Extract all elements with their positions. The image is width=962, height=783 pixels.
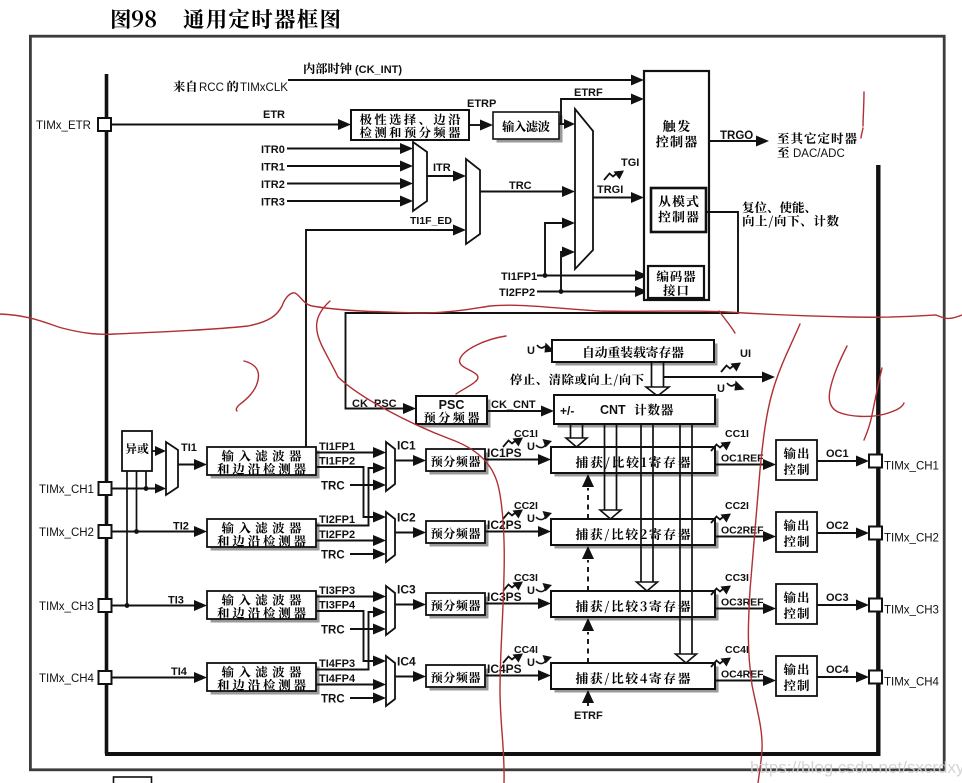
label CC1I + event squiggle (left) <box>503 441 515 448</box>
red annotation: long right vertical stroke <box>748 324 800 783</box>
wire TRGI into slave mode controller <box>593 197 631 199</box>
red annotation: long horizontal stroke across page <box>0 293 962 334</box>
mux: IC1 selector <box>386 442 395 491</box>
svg-text:TI3FP3: TI3FP3 <box>319 585 355 597</box>
svg-text:CC2I: CC2I <box>514 500 538 512</box>
box: polarity selection & edge detector & prescaler <box>351 110 469 140</box>
wire TRC to IC1 mux <box>350 484 373 486</box>
wire TI1FP1 branch up into TRGI mux <box>543 273 548 278</box>
svg-text:CC1I: CC1I <box>725 428 749 440</box>
wire TI4FP4 to IC4 mux <box>316 684 373 686</box>
wire TI1FP1 to IC1 mux <box>316 452 373 454</box>
svg-text:+/-: +/- <box>560 404 574 418</box>
pin TIMx_CH3 connector square <box>99 599 112 612</box>
wire OC3 <box>817 604 857 606</box>
box: CNT counter <box>558 399 719 428</box>
svg-text:OC1: OC1 <box>826 448 849 460</box>
svg-text:IC2: IC2 <box>397 511 416 525</box>
svg-text:https://blog.csdn.net/sxcrdxy: https://blog.csdn.net/sxcrdxy <box>750 758 962 777</box>
svg-text:U: U <box>527 441 535 453</box>
label UI + event squiggle <box>721 366 733 373</box>
label: to other timers / to DAC/ADC <box>777 132 856 160</box>
wire TI1F_ED (from CH1 filter up into TRC mux) <box>306 230 454 447</box>
box: capture/compare register 2 <box>555 523 719 549</box>
svg-text:TI2: TI2 <box>173 521 189 533</box>
red annotation: short S stroke on right bus <box>864 368 882 440</box>
svg-text:OC4: OC4 <box>826 664 850 676</box>
label TGI + event squiggle <box>604 174 616 181</box>
svg-text:TIMx_CH3: TIMx_CH3 <box>39 601 94 613</box>
wire OC2REF <box>715 536 764 538</box>
svg-text:TIMxCLK: TIMxCLK <box>240 82 288 94</box>
svg-text:TI1FP1: TI1FP1 <box>501 271 537 283</box>
svg-text:ITR3: ITR3 <box>261 197 285 209</box>
wire ETRP <box>469 124 481 126</box>
label CC4I + event squiggle (left) <box>503 657 515 664</box>
wire TI2 to CH2 input filter <box>112 531 196 533</box>
wire ITR to TRC mux <box>427 175 454 177</box>
svg-text:CK_PSC: CK_PSC <box>352 398 397 410</box>
red annotation: long diagonal-then-vertical stroke (left) <box>338 377 504 783</box>
svg-text:CNT: CNT <box>600 403 626 417</box>
dashed arrow: capture 2 to capture 1 <box>587 488 589 519</box>
label: reset enable up/down count <box>742 201 838 227</box>
svg-text:IC3PS: IC3PS <box>487 590 522 604</box>
wire TI4 to CH4 input filter <box>112 677 196 679</box>
pin TIMx_CH2 connector square (right) <box>869 527 882 540</box>
box: CH2 output control <box>776 512 817 552</box>
wire TIMx_CH1 to xor mux <box>112 488 156 490</box>
box: input filter (ETR) <box>497 116 563 143</box>
svg-text:OC1REF: OC1REF <box>721 453 764 465</box>
wire IC3PS to capture register <box>485 603 539 605</box>
box: CH1 prescaler <box>430 453 489 475</box>
svg-text:ITR2: ITR2 <box>261 179 285 191</box>
dashed arrow: capture 4 to capture 3 <box>587 632 589 663</box>
red annotation: curved stroke left (hook near encoder) <box>317 301 338 377</box>
box: CH2 prescaler <box>430 525 489 547</box>
svg-text:TIMx_CH1: TIMx_CH1 <box>884 461 939 473</box>
wire IC4 to prescaler <box>395 676 413 678</box>
svg-text:TGI: TGI <box>621 157 639 169</box>
box: CH3 prescaler <box>430 597 489 619</box>
pin TIMx_CH2 connector square <box>99 525 112 538</box>
wire TI1FP1 into encoder interface <box>537 275 636 277</box>
svg-text:ITR: ITR <box>433 162 451 174</box>
wire ETRF (up and right into trigger controller) <box>561 99 631 124</box>
hollow arrow: CNT to capture register 3 <box>640 424 642 583</box>
wire OC1 <box>817 460 857 462</box>
wire TRC to IC2 mux <box>350 553 373 555</box>
svg-text:IC3: IC3 <box>397 583 416 597</box>
mux: TRC selector <box>466 159 480 244</box>
wire CK_INT into trigger controller <box>288 79 631 81</box>
hollow arrow: CNT to capture register 4 <box>679 424 681 655</box>
svg-text:ETRP: ETRP <box>467 98 496 110</box>
red annotation: small vertical tick (top right) <box>861 92 864 138</box>
svg-text:TIMx_CH4: TIMx_CH4 <box>884 677 940 689</box>
box: encoder interface <box>648 266 704 298</box>
box: CH1 output control <box>776 440 817 480</box>
wire TRGO output <box>709 140 757 142</box>
svg-text:IC1: IC1 <box>397 439 416 453</box>
svg-text:TRC: TRC <box>321 694 345 706</box>
svg-text:CC2I: CC2I <box>725 500 749 512</box>
wire ITR1 <box>287 165 401 167</box>
box: CH3 output control <box>776 584 817 624</box>
svg-text:ETRF: ETRF <box>574 710 603 722</box>
wire CK_CNT <box>487 410 542 412</box>
box: PSC prescaler <box>420 400 491 428</box>
box: capture/compare register 1 <box>555 451 719 477</box>
box: capture/compare register 4 <box>555 667 719 693</box>
wire XOR output to TI1 mux <box>152 450 155 452</box>
svg-text:ETRF: ETRF <box>574 87 603 99</box>
box: capture/compare register 3 <box>555 595 719 621</box>
red annotation: squiggle near PSC <box>456 336 506 394</box>
label: TIMxCLK from RCC <box>173 81 288 94</box>
svg-text:OC3REF: OC3REF <box>721 597 764 609</box>
label CC1I + event squiggle (right) <box>711 445 723 452</box>
svg-text:DAC/ADC: DAC/ADC <box>793 148 845 160</box>
wire TRC to TRGI mux <box>480 191 563 193</box>
wire filter output to ETRF mux <box>559 123 564 125</box>
svg-text:RCC: RCC <box>199 82 224 94</box>
wire ETR <box>111 124 339 126</box>
mux: TI1 xor selector <box>166 442 178 495</box>
wire OC2 <box>817 532 857 534</box>
label CC3I + event squiggle (right) <box>711 589 723 596</box>
svg-text:TI3FP4: TI3FP4 <box>319 600 356 612</box>
pin TIMx_CH4 connector square <box>99 671 112 684</box>
wire ITR2 <box>287 183 401 185</box>
svg-text:IC1PS: IC1PS <box>487 446 522 460</box>
svg-text:TI4FP3: TI4FP3 <box>319 658 355 670</box>
red annotation: J-hook stroke crossing right bus <box>829 346 904 416</box>
legend stub box (bottom left, cut off) <box>114 777 152 783</box>
box: trigger controller U1 <box>644 71 709 300</box>
wire IC2PS to capture register <box>485 531 539 533</box>
svg-text:TRGO: TRGO <box>720 130 753 142</box>
left internal bus (thick vertical) <box>105 74 109 754</box>
wire U event line right <box>664 376 764 378</box>
svg-text:TI2FP2: TI2FP2 <box>319 529 355 541</box>
wire TI2FP2 into encoder interface <box>537 291 636 293</box>
svg-text:TIMx_ETR: TIMx_ETR <box>36 120 91 132</box>
wire TI3FP4 down to IC4 mux <box>316 611 373 661</box>
svg-text:TIMx_CH3: TIMx_CH3 <box>884 605 939 617</box>
title: figure 98 general purpose timer block diagram <box>112 9 340 29</box>
mux: TRGI selector (tall) <box>575 109 593 269</box>
mux: IC2 selector <box>386 512 395 562</box>
svg-text:TI4: TI4 <box>171 666 188 678</box>
wire ETRF into capture register 4 <box>587 702 589 706</box>
box: XOR <box>122 431 152 471</box>
svg-text:ETR: ETR <box>263 109 285 121</box>
box: CH4 prescaler <box>430 669 489 691</box>
svg-text:U: U <box>527 513 535 525</box>
pin TIMx_CH1 connector square <box>99 482 112 495</box>
svg-text:TRC: TRC <box>321 625 345 637</box>
red annotation: small hook below long line (center right) <box>719 311 735 333</box>
pin TIMx_CH4 connector square (right) <box>869 671 882 684</box>
wire OC4REF <box>715 680 764 682</box>
mux: IC4 selector <box>386 656 395 706</box>
svg-text:OC3: OC3 <box>826 592 849 604</box>
label CC2I + event squiggle (left) <box>503 513 515 520</box>
svg-text:U: U <box>717 383 725 395</box>
hollow arrow: CNT to capture register 1 <box>570 424 572 439</box>
wire IC3 to prescaler <box>395 604 413 606</box>
wire TI1FP2 down to IC2 mux <box>316 467 373 517</box>
mux: IC3 selector <box>386 586 395 635</box>
wire TI4FP3 up to IC3 mux <box>316 612 374 670</box>
wire IC1 to prescaler <box>395 460 413 462</box>
svg-text:IC4: IC4 <box>397 655 416 669</box>
pin TIMx_ETR connector square <box>98 118 111 131</box>
box: slave mode controller <box>651 188 706 232</box>
wire TRC to IC3 mux <box>350 628 373 630</box>
svg-text:CC1I: CC1I <box>514 428 538 440</box>
wire OC4 <box>817 676 857 678</box>
wire TI1 to CH1 input filter <box>178 464 195 466</box>
box: CH3 input filter & edge detector <box>211 595 320 623</box>
wire: slave mode control to PSC (reset/enable path) <box>346 212 739 409</box>
red annotation: small hook stroke (center) <box>236 361 258 411</box>
label CC2I + event squiggle (right) <box>711 517 723 524</box>
svg-text:TIMx_CH1: TIMx_CH1 <box>39 484 94 496</box>
wire OC3REF <box>715 608 764 610</box>
svg-text:TIMx_CH4: TIMx_CH4 <box>39 673 95 685</box>
wire TI2FP2 to IC2 mux <box>316 540 373 542</box>
dashed arrow: capture 3 to capture 2 <box>587 560 589 591</box>
svg-text:U: U <box>527 657 535 669</box>
wire ITR3 <box>287 200 401 202</box>
svg-text:TI1FP1: TI1FP1 <box>319 441 355 453</box>
box: CH4 output control <box>776 656 817 696</box>
svg-text:IC4PS: IC4PS <box>487 662 522 676</box>
svg-text:TIMx_CH2: TIMx_CH2 <box>884 533 939 545</box>
wire OC1REF <box>715 464 764 466</box>
wire IC4PS to capture register <box>485 675 539 677</box>
svg-text:(CK_INT): (CK_INT) <box>355 64 402 76</box>
box: CH4 input filter & edge detector <box>211 667 320 695</box>
svg-text:TRC: TRC <box>509 180 532 192</box>
svg-text:TI2FP1: TI2FP1 <box>319 514 355 526</box>
box: CH1 input filter & edge detector <box>211 451 320 479</box>
svg-text:CC4I: CC4I <box>514 644 538 656</box>
wire TI3FP3 to IC3 mux <box>316 596 373 598</box>
wire ITR0 <box>287 148 401 150</box>
wire XOR box feed lines down to CH1/CH2/CH3 <box>145 471 147 489</box>
bottom internal bus (thick horizontal) <box>105 752 880 756</box>
label: stopped cleared or up/down <box>510 373 522 385</box>
svg-text:TI1F_ED: TI1F_ED <box>410 215 452 227</box>
hollow arrow: auto-reload to CNT <box>651 362 653 388</box>
svg-text:TI1: TI1 <box>181 442 197 454</box>
mux: ITR selector <box>413 142 427 211</box>
hollow arrow: CNT to capture register 2 <box>604 424 606 511</box>
svg-text:OC2: OC2 <box>826 520 849 532</box>
label CC4I + event squiggle (right) <box>711 661 723 668</box>
svg-text:OC4REF: OC4REF <box>721 669 764 681</box>
svg-text:OC2REF: OC2REF <box>721 525 764 537</box>
wire TI2FP1 up to IC1 mux <box>316 468 374 526</box>
wire IC1PS to capture register <box>485 459 539 461</box>
svg-text:CC3I: CC3I <box>725 572 749 584</box>
svg-text:TRGI: TRGI <box>597 184 623 196</box>
wire TRC to IC4 mux <box>350 697 373 699</box>
svg-text:U: U <box>527 345 535 357</box>
svg-text:TRC: TRC <box>321 550 345 562</box>
svg-text:TI2FP2: TI2FP2 <box>499 287 535 299</box>
box: CH2 input filter & edge detector <box>211 523 320 551</box>
label CC3I + event squiggle (left) <box>503 585 515 592</box>
right internal bus (thick vertical) <box>876 165 880 756</box>
wire TI2FP2 branch up into TRGI mux <box>559 289 564 294</box>
svg-text:PSC: PSC <box>439 398 465 412</box>
svg-text:CK_CNT: CK_CNT <box>491 399 536 411</box>
svg-text:CC3I: CC3I <box>514 572 538 584</box>
wire TI3 to CH3 input filter <box>112 605 196 607</box>
box: auto-reload register <box>556 344 718 366</box>
wire IC2 to prescaler <box>395 532 413 534</box>
svg-text:TI3: TI3 <box>168 595 184 607</box>
pin TIMx_CH1 connector square (right) <box>869 455 882 468</box>
svg-text:TRC: TRC <box>321 481 345 493</box>
label: internal clock CK_INT <box>304 63 402 76</box>
svg-text:TI1FP2: TI1FP2 <box>319 456 355 468</box>
svg-text:UI: UI <box>740 348 751 360</box>
svg-text:TI4FP4: TI4FP4 <box>319 673 356 685</box>
svg-text:CC4I: CC4I <box>725 644 749 656</box>
svg-text:TIMx_CH2: TIMx_CH2 <box>39 527 94 539</box>
svg-text:ITR0: ITR0 <box>261 144 285 156</box>
svg-text:U: U <box>527 585 535 597</box>
pin TIMx_CH3 connector square (right) <box>869 599 882 612</box>
svg-text:ITR1: ITR1 <box>261 162 285 174</box>
